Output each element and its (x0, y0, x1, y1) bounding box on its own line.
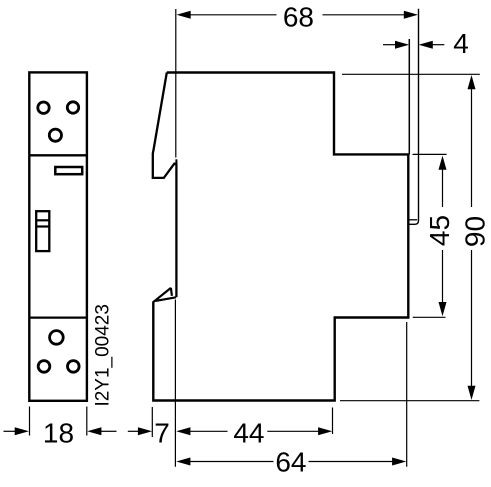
lower clip latch bottom line (156, 297, 176, 301)
switch lever line 1 (36, 219, 49, 221)
svg-text:I2Y1_00423: I2Y1_00423 (93, 304, 114, 407)
top terminal hole center (49, 129, 61, 141)
dim 44 left arrow (176, 427, 190, 435)
dim 44 line right segment (267, 430, 319, 432)
dim 64 line left segment (189, 461, 273, 463)
dim 18 right arrow (87, 427, 101, 435)
dim 18 right extension line (86, 407, 88, 436)
dim 4 right arrow (419, 41, 433, 49)
dim 4 right arrow tail (432, 44, 444, 46)
top terminal hole left (38, 102, 49, 113)
dim 90 line lower segment (471, 250, 473, 387)
dim 44 right extension line (332, 408, 334, 435)
dim 18 left arrow (15, 427, 29, 435)
dim 90 top arrow (468, 75, 476, 89)
dim 7 arrow (138, 427, 152, 435)
front view upper divider (29, 154, 87, 156)
lower clip latch right side (171, 288, 172, 296)
bottom terminal hole right (68, 361, 80, 373)
dim 68 line left segment (189, 14, 276, 16)
dim 45 top extension line (413, 153, 447, 155)
svg-text:64: 64 (275, 446, 306, 477)
dim 90 line upper segment (471, 88, 473, 207)
top terminal hole right (67, 102, 78, 113)
rear rail tab left edge (408, 39, 410, 154)
switch lever body (36, 211, 49, 251)
svg-text:68: 68 (283, 1, 314, 32)
label window slot (55, 167, 82, 174)
dim 64 right extension line (406, 322, 408, 467)
svg-text:90: 90 (460, 216, 491, 247)
dim 7 left extension line (151, 407, 153, 437)
dim 90 top extension line (342, 73, 480, 75)
svg-text:7: 7 (154, 418, 170, 449)
shared left extension line (7/44/64) (174, 300, 176, 467)
dim 68 left extension line (175, 9, 177, 158)
upper notch vertical stub (175, 159, 177, 165)
dim 90 bottom extension line (340, 400, 479, 402)
lower clip latch hypotenuse (153, 288, 171, 303)
dim 45 line lower segment (442, 250, 444, 303)
dim 68 line right segment (323, 14, 406, 16)
rear rail tab right edge with rounded bottom (408, 9, 418, 225)
dim 7 arrow tail (128, 430, 139, 432)
side view top-left slant and upper rail notch (153, 73, 177, 298)
dim 4 left arrow tail (383, 44, 396, 46)
dim 45 bottom extension line (413, 316, 446, 318)
dim 45 top arrow (439, 156, 447, 170)
dim 68 left arrow (177, 11, 191, 19)
dim 64 right arrow (392, 458, 406, 466)
switch lever line 2 (36, 225, 49, 227)
svg-text:44: 44 (233, 418, 264, 449)
dim 18 right arrow tail (101, 430, 117, 432)
dim 18 left extension line (29, 407, 31, 436)
side view main outline (153, 73, 408, 401)
dim 4 left arrow (395, 41, 409, 49)
front view lower divider (29, 316, 87, 318)
bottom terminal hole left (38, 361, 50, 373)
svg-text:18: 18 (43, 418, 74, 449)
dim 68 right arrow (404, 11, 418, 19)
bottom terminal hole center (50, 331, 64, 345)
dim 90 bottom arrow (468, 386, 476, 400)
rear rail tab inner line (409, 219, 418, 221)
dim 44 right arrow (318, 427, 332, 435)
dim 45 bottom arrow (439, 302, 447, 316)
svg-text:45: 45 (424, 215, 455, 246)
dim 45 line upper segment (442, 169, 444, 207)
front view outer body (29, 72, 87, 400)
dim 18 left arrow tail (4, 430, 16, 432)
dim 64 line right segment (309, 461, 394, 463)
dim 64 left arrow (176, 458, 190, 466)
dim 44 line left segment (189, 430, 227, 432)
svg-text:4: 4 (453, 28, 469, 59)
